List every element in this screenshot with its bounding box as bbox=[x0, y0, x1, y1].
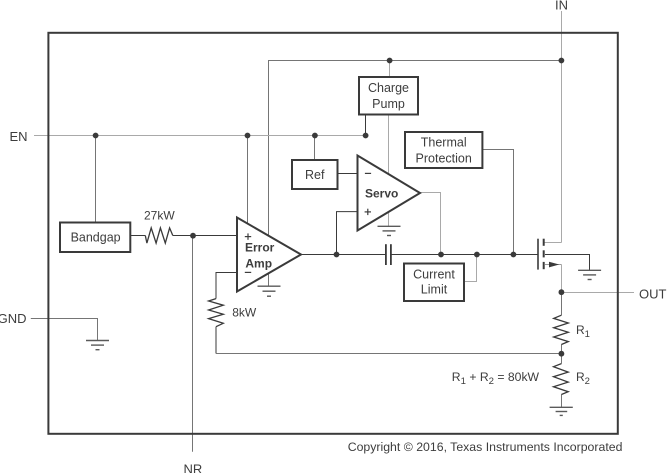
node Current Limit junction bbox=[474, 252, 480, 258]
svg-text:Bandgap: Bandgap bbox=[71, 231, 121, 245]
wire MOSFET source down to OUT node bbox=[561, 265, 563, 293]
wire Charge Pump left pin to EN bbox=[365, 114, 367, 135]
node ErrorAmp output junction bbox=[334, 252, 340, 258]
resistor 27kW bbox=[145, 228, 173, 243]
svg-text:27kW: 27kW bbox=[144, 209, 175, 223]
node 27k-NR junction bbox=[190, 233, 196, 239]
wire MOSFET body to ground bbox=[545, 255, 590, 271]
block Ref bbox=[292, 160, 338, 189]
wire EN net horizontal bbox=[34, 135, 366, 137]
resistor R2 bbox=[554, 364, 569, 395]
svg-text:IN: IN bbox=[555, 0, 568, 12]
svg-text:Limit: Limit bbox=[421, 283, 448, 297]
block Thermal Protection bbox=[405, 132, 482, 168]
wire Ref to Servo - input bbox=[338, 173, 358, 175]
wire R2 lower lead bbox=[561, 395, 563, 408]
node supply-ChargePump junction bbox=[387, 58, 393, 64]
node EN-Bandgap junction bbox=[93, 133, 99, 139]
wire GND pin bbox=[31, 319, 98, 341]
node EN-Ref junction bbox=[312, 133, 318, 139]
wire Servo output to gate node bbox=[420, 193, 441, 255]
svg-text:Current: Current bbox=[413, 268, 455, 282]
node supply-IN junction bbox=[559, 58, 565, 64]
border frame of IC bbox=[48, 33, 617, 434]
wire NR vertical bbox=[192, 236, 194, 452]
resistor R1 bbox=[554, 315, 569, 344]
svg-text:R1 + R2 = 80kW: R1 + R2 = 80kW bbox=[452, 370, 540, 387]
svg-text:OUT: OUT bbox=[639, 287, 667, 302]
wire Thermal Protection to gate node bbox=[482, 150, 513, 255]
wire Current Limit to gate node bbox=[464, 255, 477, 282]
transistor pass PMOS channel segments bbox=[543, 239, 545, 270]
wire R1 lower lead bbox=[561, 345, 563, 354]
wire capacitor to MOSFET gate bbox=[391, 254, 538, 256]
node feedback junction bbox=[559, 351, 565, 357]
wire Charge Pump output down through Servo to its ground bbox=[388, 114, 390, 226]
svg-text:Protection: Protection bbox=[416, 151, 472, 165]
wire Error Amp - input to 8k resistor bbox=[216, 273, 237, 299]
svg-text:NR: NR bbox=[184, 462, 203, 473]
svg-text:Ref: Ref bbox=[305, 168, 325, 182]
svg-text:8kW: 8kW bbox=[232, 306, 257, 320]
wire Servo + input from gate node bbox=[337, 212, 358, 255]
wire Error Amp output to capacitor bbox=[301, 254, 386, 256]
wire EN bias down to Error Amp top edge bbox=[247, 136, 249, 231]
ground under R2 bbox=[550, 407, 573, 415]
svg-text:Thermal: Thermal bbox=[421, 136, 467, 150]
svg-text:Copyright © 2016, Texas Instru: Copyright © 2016, Texas Instruments Inco… bbox=[348, 440, 623, 454]
block Current Limit bbox=[404, 264, 464, 302]
node Thermal Protection junction bbox=[511, 252, 517, 258]
svg-text:Pump: Pump bbox=[372, 97, 405, 111]
transistor pass PMOS gate bar bbox=[537, 239, 539, 270]
ground at MOSFET body bbox=[578, 270, 601, 279]
wire Bandgap to 27k resistor bbox=[130, 235, 145, 237]
wire Charge Pump top pin to supply rail bbox=[389, 61, 391, 78]
wire top supply rail bbox=[268, 60, 561, 62]
node EN-ChargePump junction bbox=[363, 133, 369, 139]
svg-text:Charge: Charge bbox=[368, 81, 409, 95]
op-amp Error Amp bbox=[237, 218, 301, 292]
ground under Servo bbox=[378, 226, 401, 235]
svg-text:EN: EN bbox=[10, 129, 28, 144]
svg-text:GND: GND bbox=[0, 311, 27, 326]
capacitor feed-forward left plate bbox=[385, 244, 387, 265]
transistor source arrow bbox=[549, 262, 559, 268]
wire OUT horizontal bbox=[562, 292, 635, 294]
wire R2 upper lead bbox=[561, 354, 563, 364]
svg-text:R1: R1 bbox=[576, 323, 590, 340]
wire IN vertical bbox=[561, 11, 563, 243]
svg-text:Servo: Servo bbox=[365, 187, 398, 201]
ground at GND pin bbox=[86, 341, 109, 350]
wire supply rail down through Error Amp to its ground bbox=[268, 61, 270, 287]
capacitor feed-forward right plate bbox=[390, 244, 392, 265]
ground under Error Amp bbox=[258, 286, 281, 296]
wire 27k resistor to Error Amp + input bbox=[173, 235, 237, 237]
svg-text:Error: Error bbox=[245, 241, 275, 255]
node EN-ErrorAmp junction bbox=[245, 133, 251, 139]
wire 8k resistor lower lead bbox=[215, 327, 217, 354]
block Charge Pump bbox=[359, 77, 418, 115]
wire R1 upper lead bbox=[561, 293, 563, 316]
svg-text:R2: R2 bbox=[576, 370, 590, 387]
node Servo output junction bbox=[438, 252, 444, 258]
wire MOSFET drain stub bbox=[544, 242, 562, 244]
block Bandgap bbox=[60, 223, 130, 253]
wire feedback from divider to 8k resistor bbox=[216, 353, 562, 355]
wire EN to Bandgap bbox=[95, 136, 97, 223]
node OUT junction bbox=[559, 289, 565, 295]
svg-text:Amp: Amp bbox=[245, 257, 272, 271]
resistor 8kW bbox=[209, 299, 224, 327]
wire MOSFET source stub bbox=[545, 264, 562, 266]
wire EN to Ref bbox=[314, 136, 316, 161]
op-amp Servo bbox=[358, 156, 421, 231]
